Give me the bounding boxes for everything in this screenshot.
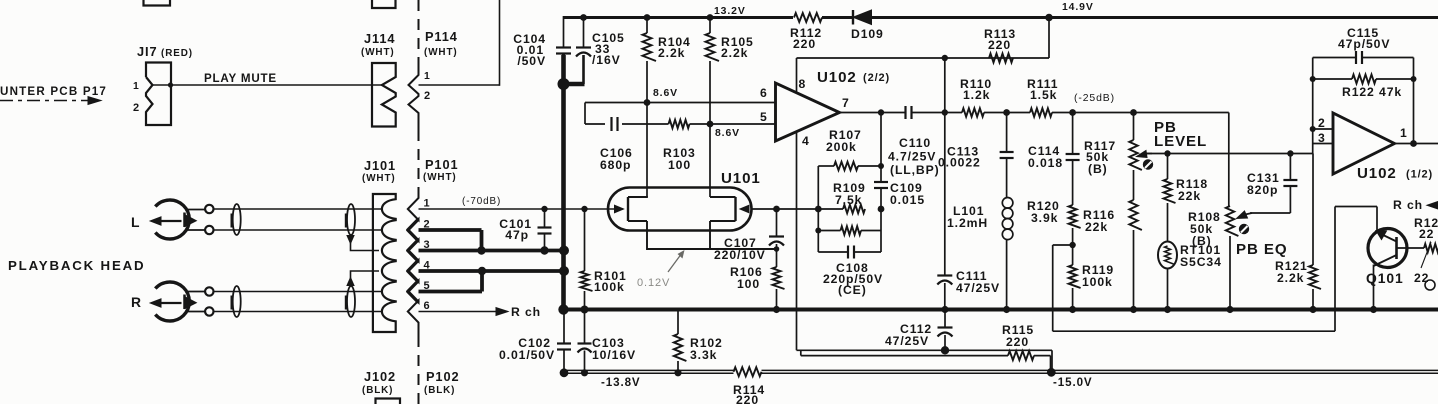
capacitor C115 <box>1313 51 1414 64</box>
transistor Q101 <box>1368 229 1407 268</box>
svg-text:8.6V: 8.6V <box>715 128 740 139</box>
label R119 100k <box>1082 263 1114 289</box>
wire PLAY MUTE (J17-1 to J114-1) <box>153 82 382 87</box>
svg-text:LEVEL: LEVEL <box>1154 133 1207 150</box>
J17 pin 2 label <box>133 102 140 114</box>
partial connector box (cut off, top left) <box>144 0 171 6</box>
U102 pin 8 wire <box>796 58 798 93</box>
wire DC feedback line <box>1053 245 1335 331</box>
label R118 22k <box>1176 177 1208 203</box>
wire -15V rail (lower line) <box>564 372 1438 374</box>
wire Q101 collector <box>1373 265 1375 310</box>
node gnd L101 <box>1003 306 1010 313</box>
label RT101 S5C34 <box>1180 243 1222 269</box>
svg-text:22k: 22k <box>1085 220 1108 234</box>
wire -13.8V rail (upper line) <box>564 369 1438 371</box>
label R117 50k (B) <box>1084 139 1116 176</box>
wire P101-5 (heavy) <box>419 271 483 292</box>
wire pin5 <box>710 123 776 125</box>
resistor R115 <box>1008 351 1051 372</box>
node L signal junction R101 <box>581 206 587 212</box>
node gnd R108 <box>1226 306 1233 313</box>
P101 pin 3 label <box>424 239 431 251</box>
label 13.2V <box>714 6 746 17</box>
svg-text:47p: 47p <box>505 228 529 242</box>
svg-text:PB EQ: PB EQ <box>1236 241 1287 258</box>
node gnd R116 <box>1130 306 1137 313</box>
resistor R107 <box>818 162 884 170</box>
R cable shield symbol 2 <box>346 286 355 317</box>
svg-text:R: R <box>131 294 142 310</box>
svg-text:2.2k: 2.2k <box>658 46 685 60</box>
wire C110 to R110 <box>912 109 963 115</box>
label 220 pointer (cut) <box>1414 242 1435 290</box>
label PB LEVEL <box>1154 119 1207 150</box>
label R102 3.3k <box>690 336 723 362</box>
label PLAYBACK HEAD <box>8 258 145 273</box>
svg-text:P102: P102 <box>426 369 460 384</box>
svg-text:J102: J102 <box>364 369 396 384</box>
P114 pin 2 label <box>424 90 431 102</box>
node -15 rail C103 <box>581 369 588 376</box>
svg-text:(-25dB): (-25dB) <box>1074 93 1115 104</box>
label Q101 <box>1366 270 1404 286</box>
R shield drain wire to J101-4 <box>347 271 379 286</box>
label R105 2.2k <box>721 35 754 60</box>
svg-text:0.015: 0.015 <box>890 193 925 207</box>
wire C111 branch <box>944 58 946 276</box>
label C109 0.015 <box>890 181 925 207</box>
svg-text:(B): (B) <box>1088 162 1108 176</box>
label COUNTER PCB P17 <box>0 85 107 98</box>
label U102 (2/2) <box>817 69 890 86</box>
svg-text:(RED): (RED) <box>161 48 193 59</box>
U102 pin 2 stub <box>1313 128 1333 130</box>
svg-text:2.2k: 2.2k <box>721 46 748 60</box>
P101 pin 1 label <box>424 198 431 210</box>
label C101 47p <box>499 217 532 242</box>
P101 pin 2 contact (heavy) <box>408 219 419 241</box>
svg-text:3: 3 <box>1318 131 1326 145</box>
svg-text:6: 6 <box>424 300 431 312</box>
wire pin4 supply feed <box>797 350 1053 372</box>
svg-text:(LL,BP): (LL,BP) <box>890 163 940 177</box>
wire signal to R108/PB EQ <box>1228 113 1230 207</box>
wire P114-1 up to top edge <box>419 0 500 86</box>
node gate-6 junction <box>644 99 651 106</box>
label L <box>131 214 140 230</box>
wire pin6 node <box>585 102 776 104</box>
thermistor RT101 <box>1158 242 1177 310</box>
svg-text:1: 1 <box>424 71 431 82</box>
svg-text:L: L <box>131 214 140 230</box>
R head terminal bottom <box>205 307 213 315</box>
wire V+ to R113 <box>797 18 1050 62</box>
P101 pin 4 label <box>424 260 431 272</box>
svg-text:-13.8V: -13.8V <box>601 376 641 389</box>
wire Q101 emitter net <box>1335 207 1377 332</box>
R117 wiper arrow <box>1137 151 1153 158</box>
svg-text:P101: P101 <box>425 157 459 172</box>
svg-text:4: 4 <box>802 134 810 148</box>
capacitor C107 <box>769 209 784 267</box>
node bus junction pin3 <box>559 246 569 256</box>
svg-text:22: 22 <box>1414 271 1429 285</box>
node rail junction R105 <box>707 14 714 21</box>
op-amp U102 (2/2) <box>776 83 840 141</box>
wire right gate to feedback <box>752 206 844 213</box>
svg-text:1.5k: 1.5k <box>1030 88 1057 102</box>
svg-text:2: 2 <box>1318 116 1326 130</box>
label C106 680p <box>600 146 633 172</box>
capacitor C102 <box>557 310 571 374</box>
label C115 47p/50V <box>1338 26 1390 51</box>
label C107 220/10V <box>714 236 766 262</box>
wire R head return to J101-6 <box>214 311 382 313</box>
svg-text:(WHT): (WHT) <box>424 47 458 58</box>
svg-text:13.2V: 13.2V <box>714 6 746 17</box>
svg-text:1.2k: 1.2k <box>963 88 990 102</box>
FET pair U101 package <box>608 188 752 231</box>
svg-text:(BLK): (BLK) <box>362 385 393 396</box>
label C105 33/16V <box>592 31 625 67</box>
svg-text:7: 7 <box>842 96 850 110</box>
resistor R116 <box>1129 200 1142 310</box>
connector P101 body <box>408 192 419 336</box>
label R115 220 <box>1002 323 1034 349</box>
label PB EQ <box>1236 241 1287 258</box>
label R106 100 <box>730 265 763 291</box>
resistor R109 <box>815 205 885 213</box>
svg-text:1.2mH: 1.2mH <box>947 216 988 230</box>
wire P101-2 (heavy) <box>419 230 482 251</box>
label C113 0.0022 <box>938 145 981 170</box>
wire PB LEVEL wiper line <box>1146 150 1313 156</box>
U102 pin 7 label <box>842 96 850 110</box>
svg-text:Q101: Q101 <box>1366 270 1404 286</box>
potentiometer R117 <box>1129 113 1142 201</box>
resistor R123 (cut) <box>1424 244 1438 252</box>
U101 left FET <box>615 197 648 221</box>
board edge dashed line (bottom) <box>418 336 420 404</box>
U102 pin 8 label <box>799 77 807 91</box>
U102 pin 5 label <box>760 110 768 124</box>
svg-text:7.5k: 7.5k <box>835 193 862 207</box>
label J17(RED) <box>137 44 193 59</box>
svg-text:100: 100 <box>668 158 691 172</box>
node gnd bus <box>558 304 568 314</box>
wire +13.2V top rail <box>564 16 1438 47</box>
label R ch out <box>1393 198 1438 212</box>
label R108 50k (B) <box>1188 210 1221 248</box>
resistor R121 <box>1309 154 1321 310</box>
capacitor C103 <box>578 310 592 374</box>
svg-text:14.9V: 14.9V <box>1062 2 1094 13</box>
node -15 rail R102 <box>674 369 681 376</box>
svg-text:(WHT): (WHT) <box>361 47 395 58</box>
resistor R103 <box>669 120 690 128</box>
node L signal junction C101 <box>541 206 547 212</box>
svg-text:47/25V: 47/25V <box>956 281 1000 295</box>
wire fb right rail <box>880 113 882 253</box>
svg-text:PLAYBACK HEAD: PLAYBACK HEAD <box>8 258 145 273</box>
label C131 820p <box>1247 171 1280 197</box>
label J101 (WHT) <box>362 158 396 184</box>
node 13.2V rail junction C105 <box>580 14 587 21</box>
resistor R104 <box>643 18 657 103</box>
ground bus (heavy vertical) <box>564 55 585 310</box>
label P101 (WHT) <box>423 157 459 183</box>
label R110 1.2k <box>960 77 992 102</box>
wire C106-R103 branch <box>585 103 710 125</box>
wire Q101 base <box>1397 247 1425 249</box>
label C112 47/25V <box>885 322 932 348</box>
op-amp U102 (1/2) <box>1333 113 1395 174</box>
wire fb left rail <box>817 166 819 252</box>
wire P101-4 (heavy ground) <box>419 267 565 275</box>
label L101 1.2mH <box>947 204 988 230</box>
capacitor C131 <box>1283 154 1297 187</box>
svg-text:10/16V: 10/16V <box>592 348 636 362</box>
capacitor C109 <box>874 182 888 188</box>
wire R108 wiper to C131 <box>1250 187 1290 214</box>
svg-text:4.7/25V: 4.7/25V <box>888 150 936 164</box>
P101 pin 5 label <box>424 280 431 292</box>
svg-text:820p: 820p <box>1247 183 1278 197</box>
wire U101 right drain <box>709 124 711 197</box>
label C111 47/25V <box>956 269 1000 295</box>
svg-text:0.018: 0.018 <box>1028 156 1063 170</box>
label -15.0V <box>1053 376 1093 389</box>
L shield drain wire to J101-3 <box>347 235 379 251</box>
resistor R102 <box>674 310 687 374</box>
node gnd R106 <box>773 306 780 313</box>
U102 pin 4 label <box>802 134 810 148</box>
label R113 220 <box>984 27 1016 52</box>
node -15 rail C102 <box>560 368 569 377</box>
wire U102-7 output <box>840 109 906 115</box>
U102 pin 3 label <box>1318 131 1326 145</box>
svg-text:220: 220 <box>988 38 1011 52</box>
L cable shield symbol 1 <box>232 204 241 235</box>
L head terminal bottom <box>205 226 213 234</box>
svg-text:100k: 100k <box>594 280 625 294</box>
wire P101-1 signal (L ch, -70dB) <box>419 208 623 210</box>
resistor R (parallel, unlabeled) <box>815 226 881 234</box>
wire fb right vertical <box>1411 58 1417 144</box>
resistor R118 <box>1164 154 1176 243</box>
node bus junction pin4 <box>559 266 569 276</box>
label R ch <box>511 305 541 319</box>
node rail junction 14.9V feed <box>1045 14 1053 22</box>
label R112 220 <box>790 26 822 51</box>
connector J114 body <box>372 63 396 127</box>
node bus junction (C104/C105) <box>558 78 570 90</box>
svg-text:220: 220 <box>793 37 816 51</box>
P101 pin 4 contact (heavy) <box>408 260 419 282</box>
label C114 0.018 <box>1028 144 1063 170</box>
R108 wiper arrow <box>1237 211 1253 219</box>
svg-text:U102: U102 <box>817 69 857 86</box>
resistor R106 <box>773 267 785 310</box>
L cable shield symbol 2 <box>346 204 355 235</box>
svg-text:100k: 100k <box>1082 275 1113 289</box>
svg-text:1: 1 <box>424 198 431 210</box>
U102 pin 6 label <box>760 86 768 100</box>
playback head R symbol <box>150 282 205 321</box>
capacitor C114 <box>1066 113 1080 161</box>
label 8.6V (lower) <box>715 128 740 139</box>
svg-text:47p/50V: 47p/50V <box>1338 37 1390 51</box>
svg-text:0.12V: 0.12V <box>637 277 670 289</box>
L head terminal top <box>205 205 213 213</box>
resistor R111 <box>1030 108 1052 116</box>
label D109 <box>851 27 884 41</box>
resistor R105 <box>706 18 720 125</box>
P101 pin 3 contact (heavy) <box>408 240 419 262</box>
label J102 (BLK) <box>362 369 396 396</box>
connector J101 body <box>373 194 396 332</box>
inductor L101 <box>1002 158 1013 310</box>
svg-text:680p: 680p <box>600 158 631 172</box>
svg-text:(CE): (CE) <box>838 283 867 297</box>
resistor R120 <box>1069 160 1081 265</box>
svg-text:2: 2 <box>133 102 140 114</box>
wire P101-3 (heavy ground) <box>419 246 565 254</box>
node pin5 junction <box>707 121 714 128</box>
R cable shield symbol 1 <box>232 286 241 317</box>
svg-text:(BLK): (BLK) <box>424 385 455 396</box>
svg-text:(-70dB): (-70dB) <box>462 196 501 207</box>
node gnd C111/C112 <box>941 306 948 313</box>
svg-text:3.3k: 3.3k <box>690 348 717 362</box>
board edge dashed line (mid) <box>418 130 420 192</box>
svg-text:J114: J114 <box>364 31 395 46</box>
capacitor C113 <box>1000 113 1014 159</box>
label C108 220p/50V (CE) <box>823 261 883 297</box>
svg-text:U102: U102 <box>1357 165 1397 182</box>
node gnd R121 <box>1309 306 1316 313</box>
resistor R122 <box>1313 75 1414 84</box>
svg-text:R ch: R ch <box>1393 198 1423 212</box>
label R103 100 <box>663 146 696 172</box>
capacitor C104 <box>556 48 571 85</box>
resistor R119 <box>1069 242 1081 310</box>
label R116 22k <box>1083 208 1115 234</box>
label R104 2.2k <box>658 35 691 60</box>
svg-text:0.01/50V: 0.01/50V <box>499 348 555 362</box>
partial connector box (cut off, above J114) <box>372 0 396 8</box>
label C103 10/16V <box>592 336 636 362</box>
connector J17 body <box>146 63 171 126</box>
label R123 (cut) <box>1414 216 1438 241</box>
node gnd R101 <box>581 306 589 314</box>
ground rail (heavy) <box>564 308 1438 312</box>
U101 right FET <box>710 197 749 221</box>
U102 pin 3 stub <box>1313 143 1333 145</box>
label C104 0.01/50V <box>513 32 546 68</box>
node gnd R119 <box>1069 306 1076 313</box>
svg-text:S5C34: S5C34 <box>1180 255 1222 269</box>
label 0.12V (measured) <box>637 250 685 289</box>
svg-text:22: 22 <box>1419 227 1434 241</box>
J17 pin 1 label <box>133 81 140 92</box>
svg-text:3.9k: 3.9k <box>1031 211 1058 225</box>
label R101 100k <box>594 269 627 294</box>
wire R110-R111 <box>984 109 1030 116</box>
svg-text:(WHT): (WHT) <box>362 173 396 184</box>
svg-text:JI7: JI7 <box>137 44 158 59</box>
capacitor C108 <box>818 246 881 259</box>
svg-text:R ch: R ch <box>511 305 541 319</box>
capacitor C106 <box>612 117 618 131</box>
capacitor C111 <box>937 276 952 310</box>
wire U101 left drain <box>647 103 648 198</box>
svg-text:5: 5 <box>760 110 768 124</box>
svg-text:1: 1 <box>1400 126 1408 140</box>
svg-text:0.0022: 0.0022 <box>938 156 981 170</box>
resistor R113 <box>989 54 1013 63</box>
label R111 1.5k <box>1027 77 1058 102</box>
P114 pin 1 label <box>424 71 431 82</box>
wire U102-1 output <box>1395 140 1438 147</box>
label 8.6V (upper) <box>653 88 678 99</box>
label (-70dB) <box>462 196 501 207</box>
svg-text:/50V: /50V <box>517 54 546 68</box>
capacitor C105 <box>576 18 591 85</box>
svg-text:(1/2): (1/2) <box>1406 169 1433 181</box>
node rail junction R104 <box>644 14 651 21</box>
label (-25dB) <box>1074 93 1115 104</box>
svg-text:(2/2): (2/2) <box>863 72 890 84</box>
svg-text:(WHT): (WHT) <box>423 172 457 183</box>
label R107 200k <box>826 128 862 154</box>
label R <box>131 294 142 310</box>
connector J102 body (cut off) <box>376 399 401 404</box>
R108 adjust symbol <box>1239 224 1249 234</box>
P101 pin 2 label <box>424 219 431 231</box>
svg-text:/16V: /16V <box>592 53 621 67</box>
wire L head hot to J101-1 <box>214 208 382 210</box>
svg-text:1: 1 <box>133 81 140 92</box>
svg-text:8.6V: 8.6V <box>653 88 678 99</box>
label R109 7.5k <box>833 181 866 207</box>
resistor R112 <box>794 13 822 22</box>
label U102 (1/2) <box>1357 165 1433 182</box>
capacitor C101 <box>538 209 552 251</box>
R117 adjust symbol <box>1143 159 1153 169</box>
wire fb left vertical <box>1310 58 1316 154</box>
label U101 <box>721 170 761 187</box>
potentiometer R108 <box>1226 206 1239 310</box>
svg-text:2.2k: 2.2k <box>1277 271 1304 285</box>
label R121 2.2k <box>1275 259 1308 285</box>
svg-text:C110: C110 <box>899 136 931 150</box>
capacitor C112 <box>938 310 953 355</box>
dashed arrow to counter PCB <box>0 97 101 105</box>
svg-text:(B): (B) <box>1192 234 1212 248</box>
svg-text:220: 220 <box>736 393 759 404</box>
label C102 0.01/50V <box>499 336 555 362</box>
R head terminal top <box>205 287 213 295</box>
node gnd RT101 <box>1164 306 1171 313</box>
diode D109 <box>853 10 872 25</box>
svg-text:47/25V: 47/25V <box>885 334 929 348</box>
svg-text:R122 47k: R122 47k <box>1342 85 1402 99</box>
svg-text:D109: D109 <box>851 27 884 41</box>
U102 pin 1 label <box>1400 126 1408 140</box>
resistor R101 <box>581 209 593 310</box>
